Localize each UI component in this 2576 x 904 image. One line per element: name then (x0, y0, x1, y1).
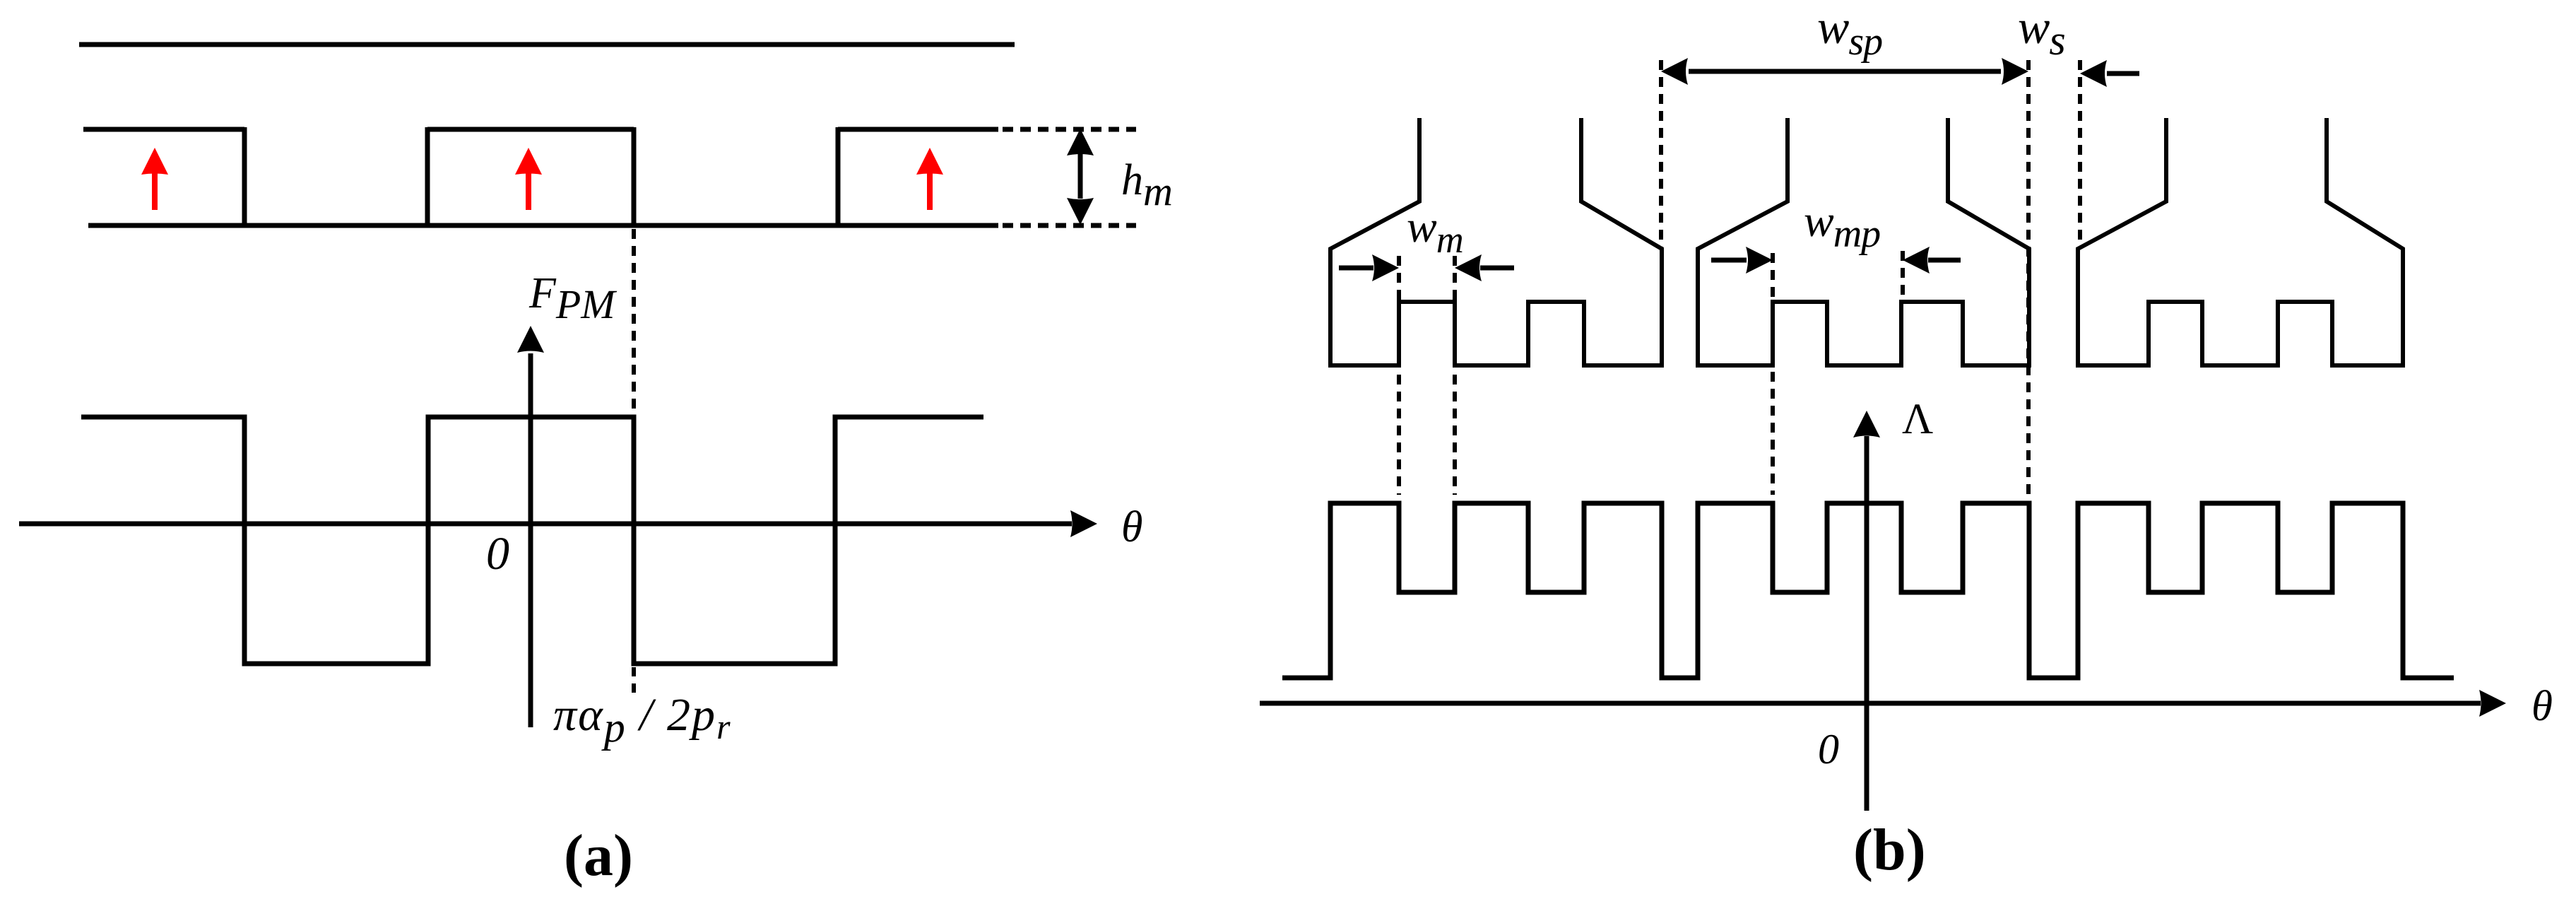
svg-text:FPM: FPM (528, 269, 617, 327)
svg-text:παp / 2pr: παp / 2pr (553, 689, 732, 751)
svg-text:hm: hm (1121, 156, 1173, 214)
svg-text:wsp: wsp (1817, 0, 1882, 64)
svg-text:(b): (b) (1853, 817, 1926, 883)
svg-text:0: 0 (1818, 726, 1839, 773)
svg-text:wm: wm (1407, 201, 1463, 261)
svg-text:wmp: wmp (1804, 196, 1880, 256)
svg-text:Λ: Λ (1902, 396, 1933, 443)
svg-text:θ: θ (1121, 503, 1142, 551)
svg-text:θ: θ (2531, 683, 2553, 730)
svg-text:ws: ws (2018, 0, 2065, 64)
svg-text:0: 0 (486, 528, 509, 580)
svg-text:(a): (a) (564, 823, 633, 888)
